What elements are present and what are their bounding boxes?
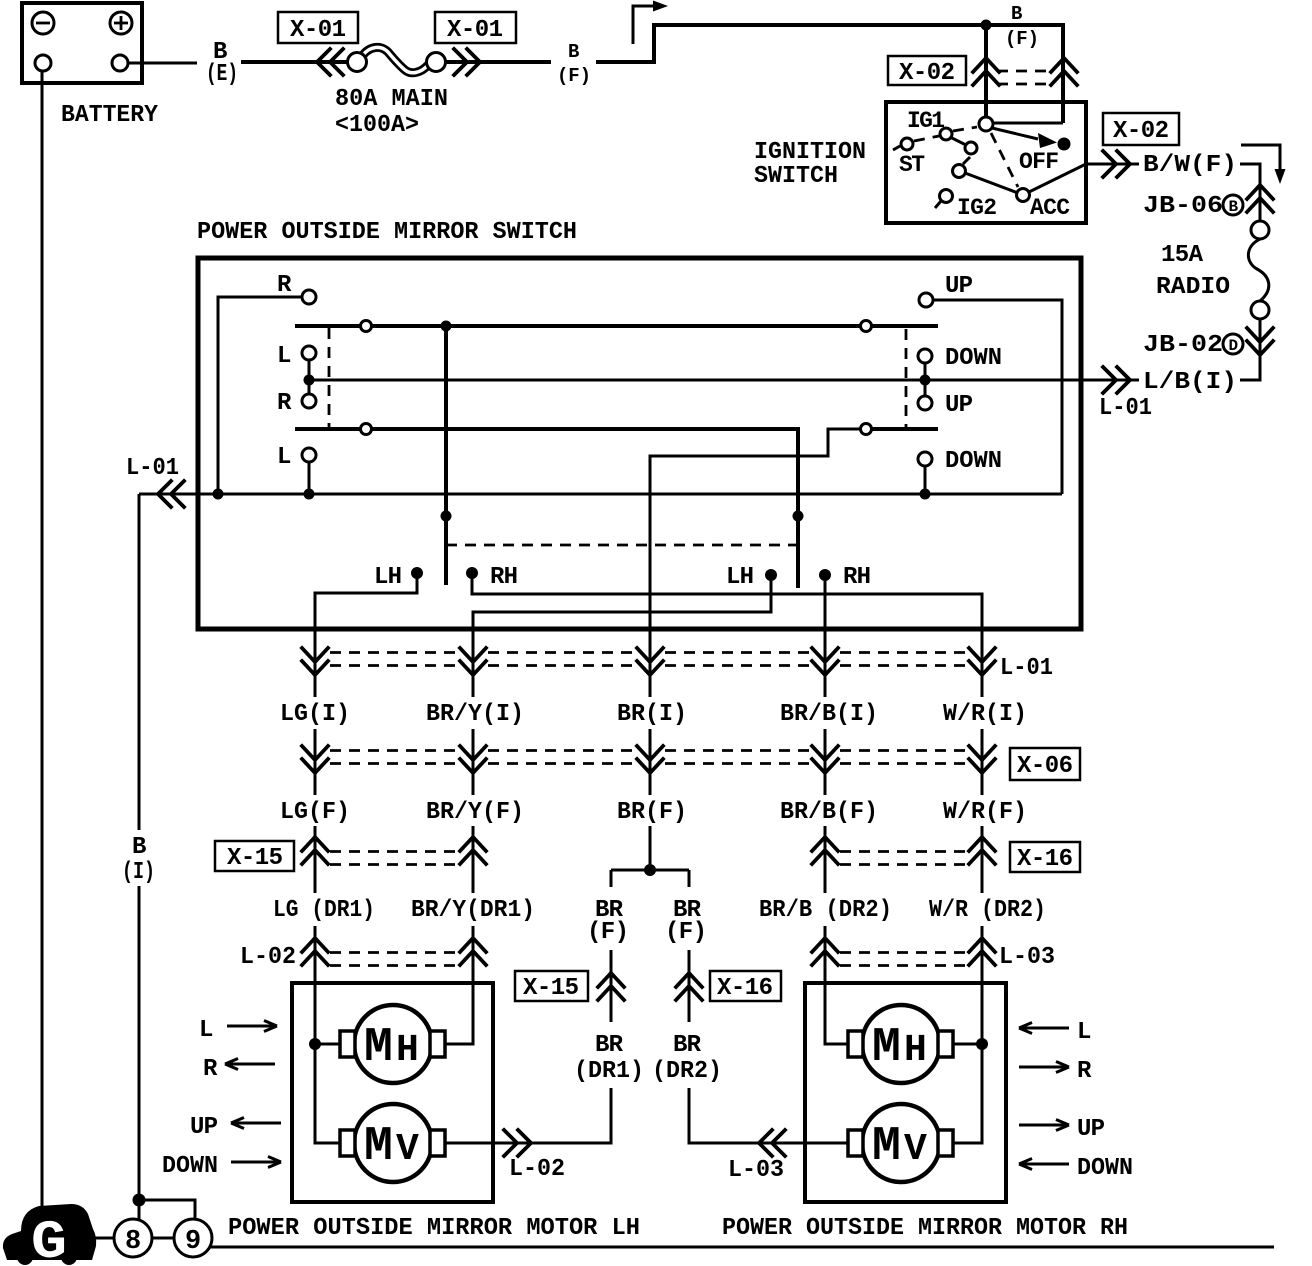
svg-text:L-02: L-02 xyxy=(509,1156,565,1183)
svg-text:POWER OUTSIDE MIRROR MOTOR LH: POWER OUTSIDE MIRROR MOTOR LH xyxy=(228,1215,640,1242)
arrow L in xyxy=(227,1021,277,1032)
wire BR(F) branches down xyxy=(611,950,689,1022)
terminal UP2 xyxy=(918,396,932,410)
svg-text:BR/B(I): BR/B(I) xyxy=(780,701,878,728)
svg-text:W/R (DR2): W/R (DR2) xyxy=(929,897,1046,924)
wire columns between X-06 row and X-15/X-16 row xyxy=(315,826,982,893)
svg-text:B: B xyxy=(1229,198,1239,216)
dashed link common-ACC xyxy=(991,133,1018,187)
svg-text:X-15: X-15 xyxy=(523,975,579,1002)
dashed link IG1-common xyxy=(953,127,977,131)
terminal L1 xyxy=(302,346,316,360)
svg-text:80A MAIN: 80A MAIN xyxy=(335,86,448,113)
dashed gang link left xyxy=(328,328,331,427)
wire R1 to bottom bus xyxy=(218,297,302,494)
svg-text:BR/B (DR2): BR/B (DR2) xyxy=(759,897,892,924)
svg-text:H: H xyxy=(904,1029,927,1072)
wire junction down to Mv left brush xyxy=(315,1044,340,1143)
svg-text:IGNITION: IGNITION xyxy=(754,139,866,166)
wire BR(DR2) to RH Mv xyxy=(689,1088,849,1143)
svg-text:IG1: IG1 xyxy=(907,108,945,134)
svg-text:B: B xyxy=(1011,3,1022,25)
wire L2 to bottom bus xyxy=(308,462,311,494)
svg-text:L: L xyxy=(1077,1019,1091,1046)
arrow R out xyxy=(225,1059,275,1070)
svg-text:X-16: X-16 xyxy=(1017,846,1073,873)
switch bar 1 (horizontal contact) xyxy=(295,324,938,328)
connector X-02 chevrons (up) xyxy=(973,58,999,85)
terminal DOWN1 xyxy=(918,349,932,363)
node bus-L2 xyxy=(304,489,315,500)
terminal B circled xyxy=(1223,195,1243,216)
node B(F) junction xyxy=(981,20,992,31)
fuse 15A RADIO xyxy=(1248,221,1269,319)
node OFF contact xyxy=(1058,138,1071,151)
connector X-02 label box (right) xyxy=(1103,113,1179,145)
wire fusible link to B(F) xyxy=(445,60,551,64)
svg-text:R: R xyxy=(1077,1058,1092,1085)
svg-text:IG2: IG2 xyxy=(957,195,997,221)
ignition common terminal xyxy=(979,117,993,131)
wire DOWN2 to bottom bus xyxy=(924,466,927,494)
contact circle bar2 left xyxy=(361,424,372,435)
wire bottom bus xyxy=(139,493,1062,496)
svg-text:R: R xyxy=(277,390,292,417)
node L/B junction left xyxy=(304,375,315,386)
terminal R2 xyxy=(302,394,316,408)
svg-text:X-02: X-02 xyxy=(899,60,955,87)
svg-text:DOWN: DOWN xyxy=(945,345,1002,372)
svg-text:JB-02: JB-02 xyxy=(1143,332,1223,359)
connector X-01 label box (left) xyxy=(278,12,358,44)
svg-text:X-15: X-15 xyxy=(227,845,283,872)
svg-text:RH: RH xyxy=(490,564,518,591)
svg-text:L/B(I): L/B(I) xyxy=(1143,369,1237,396)
svg-text:DOWN: DOWN xyxy=(1077,1155,1133,1182)
wire columns between L-01 row and X-06 row xyxy=(315,729,982,795)
wire junction down to ignition switch xyxy=(984,25,988,117)
wire W/R(DR2) into RH motor xyxy=(981,985,984,1044)
svg-text:LG (DR1): LG (DR1) xyxy=(273,897,375,924)
off-page arrow (top) xyxy=(633,6,656,44)
svg-text:BR(F): BR(F) xyxy=(617,799,687,826)
terminal UP1 xyxy=(919,293,933,307)
ignition rotor arrow to OFF xyxy=(992,128,1038,139)
svg-text:UP: UP xyxy=(945,273,973,300)
svg-text:L-01: L-01 xyxy=(126,455,179,482)
connector L-03 chevrons << on wire xyxy=(759,1130,785,1156)
switch pole 2 xyxy=(796,429,800,588)
svg-text:L-03: L-03 xyxy=(728,1157,784,1184)
connector X-15 label box xyxy=(215,841,294,872)
connector L-02 chevrons (up) xyxy=(302,938,486,965)
connector X-16 label box (lower) xyxy=(710,971,781,1002)
wire BR(DR1) to LH Mv xyxy=(446,1088,611,1143)
power outside mirror motor RH box xyxy=(805,983,1006,1202)
node IG2 contact xyxy=(940,190,953,203)
terminal 8 xyxy=(114,1219,152,1257)
svg-text:X-02: X-02 xyxy=(1113,118,1169,145)
svg-text:(I): (I) xyxy=(122,859,155,886)
svg-text:8: 8 xyxy=(125,1227,141,1257)
wire LH2 to BR/Y column xyxy=(473,580,771,697)
wire L/B(I) horizontal xyxy=(309,379,1139,382)
svg-text:BR/Y(I): BR/Y(I) xyxy=(426,701,524,728)
fusible link 80A MAIN xyxy=(348,47,446,72)
svg-text:B: B xyxy=(132,834,146,861)
svg-text:L: L xyxy=(277,444,291,471)
node L/B junction right xyxy=(920,375,931,386)
node RH motor junction xyxy=(976,1038,988,1050)
node IG2 arm contact xyxy=(953,165,966,178)
svg-text:BR(I): BR(I) xyxy=(617,701,687,728)
connector X-01 chevrons >> xyxy=(454,49,480,75)
connector X-16 chevrons (up) xyxy=(812,837,995,864)
arrow L in (RH) xyxy=(1019,1023,1069,1034)
dashed link L-02 row xyxy=(330,953,458,966)
wire B(E) to fusible link xyxy=(241,60,348,64)
dashed link X-15 row xyxy=(330,852,458,865)
connector JB-06 chevrons (up) xyxy=(1247,185,1273,212)
motor LH Mv xyxy=(340,1104,445,1182)
svg-text:(F): (F) xyxy=(557,65,591,87)
ground G (body ground car symbol) xyxy=(3,1204,96,1266)
wire ground to terminal 8 xyxy=(95,1237,114,1240)
connector chevrons << on L-01 wire xyxy=(158,481,184,507)
svg-text:X-01: X-01 xyxy=(290,17,346,44)
node RH1 xyxy=(466,567,478,579)
dashed link X-06 row xyxy=(330,751,967,764)
node ST contact xyxy=(901,138,913,150)
svg-text:BR: BR xyxy=(673,1032,702,1059)
link IG1 to contact xyxy=(950,137,966,145)
wire LH1 to LG column xyxy=(315,578,417,697)
connector L-02 chevrons >> on wire xyxy=(504,1130,531,1156)
svg-text:W/R(I): W/R(I) xyxy=(943,701,1027,728)
wire RH1 to W/R column xyxy=(472,578,982,697)
svg-text:POWER OUTSIDE MIRROR SWITCH: POWER OUTSIDE MIRROR SWITCH xyxy=(197,219,577,246)
svg-text:LH: LH xyxy=(726,564,754,591)
wire B(F) up and right to junction xyxy=(596,25,1063,123)
terminal D circled xyxy=(1223,334,1243,355)
svg-text:RADIO: RADIO xyxy=(1156,274,1230,301)
ST tick xyxy=(893,146,900,150)
svg-text:UP: UP xyxy=(945,392,973,419)
arrow UP out xyxy=(231,1118,281,1129)
svg-text:RH: RH xyxy=(843,564,871,591)
node RH2 xyxy=(819,569,831,581)
connector X-06 label box xyxy=(1010,748,1080,780)
svg-text:UP: UP xyxy=(1077,1116,1105,1143)
motor RH Mh xyxy=(848,1005,953,1083)
dashed link L-01 row xyxy=(330,653,967,666)
svg-text:(DR2): (DR2) xyxy=(652,1058,722,1085)
svg-text:<100A>: <100A> xyxy=(335,112,419,139)
node B(I) junction bottom xyxy=(133,1194,146,1207)
svg-text:ACC: ACC xyxy=(1030,195,1070,221)
wire DOWN1-UP2 link xyxy=(924,363,927,396)
wire fuse to JB-02 xyxy=(1240,319,1260,380)
connector X-15 label box (lower) xyxy=(515,971,588,1002)
connector X-16 chevron on BR(DR2) (up) xyxy=(676,973,702,1000)
svg-text:L: L xyxy=(277,343,291,370)
connector X-02 dashed link xyxy=(997,71,1053,84)
dashed link ST-IG1 xyxy=(914,136,939,141)
svg-text:L-01: L-01 xyxy=(1099,395,1152,422)
wire B(I) down left side xyxy=(138,494,141,1200)
svg-text:BR/Y(F): BR/Y(F) xyxy=(426,799,524,826)
svg-text:M: M xyxy=(872,1120,901,1174)
node ACC contact xyxy=(1017,189,1030,202)
arrow DOWN in xyxy=(231,1157,281,1168)
svg-text:G: G xyxy=(31,1213,67,1266)
arrow R out (RH) xyxy=(1019,1062,1069,1073)
svg-text:POWER OUTSIDE MIRROR MOTOR RH: POWER OUTSIDE MIRROR MOTOR RH xyxy=(722,1215,1128,1242)
svg-text:(E): (E) xyxy=(206,61,238,88)
svg-text:B/W(F): B/W(F) xyxy=(1143,152,1237,179)
node BR(F) split xyxy=(644,864,656,876)
connector X-16 label box xyxy=(1010,842,1080,873)
svg-text:DOWN: DOWN xyxy=(945,448,1002,475)
svg-text:R: R xyxy=(203,1056,218,1083)
wire junction to Mh right brush xyxy=(953,1043,982,1046)
svg-text:M: M xyxy=(364,1021,393,1075)
node contact below IG1 xyxy=(965,142,977,154)
terminal R1 xyxy=(302,290,316,304)
ignition switch U1 box xyxy=(886,102,1086,223)
switch bar 2 (horizontal contact) xyxy=(295,427,800,431)
motor LH Mh xyxy=(340,1005,445,1083)
dashed link X-16 row xyxy=(840,852,967,865)
IG2 tick xyxy=(935,201,941,208)
wire BR(F) T-split xyxy=(611,870,689,887)
connector X-01 label box (right) xyxy=(435,12,516,44)
svg-text:JB-06: JB-06 xyxy=(1143,193,1223,220)
wire UP1 right and down to bottom bus xyxy=(933,300,1062,494)
wire RH2 to BR/B column xyxy=(824,580,827,697)
svg-text:SWITCH: SWITCH xyxy=(754,163,838,190)
wire feed into ignition switch xyxy=(991,122,1063,125)
arrow UP out (RH) xyxy=(1019,1120,1069,1131)
svg-text:(DR1): (DR1) xyxy=(574,1058,644,1085)
svg-text:X-16: X-16 xyxy=(717,975,773,1002)
wire BR(F) to split junction xyxy=(649,826,652,870)
node LH1 xyxy=(411,567,423,579)
svg-text:ST: ST xyxy=(899,152,925,178)
svg-text:DOWN: DOWN xyxy=(162,1153,218,1180)
wire junction to ground circles xyxy=(139,1200,195,1221)
svg-text:B: B xyxy=(568,41,579,63)
connector X-15 chevron on BR(DR1) (up) xyxy=(598,973,624,1000)
connector X-01 chevrons << xyxy=(317,49,343,75)
wire battery positive to B(E) xyxy=(128,62,197,65)
svg-text:15A: 15A xyxy=(1161,242,1204,269)
svg-text:(F): (F) xyxy=(665,919,707,946)
contact circle bar2 right xyxy=(861,424,872,435)
svg-text:M: M xyxy=(872,1021,901,1075)
svg-text:M: M xyxy=(364,1120,393,1174)
dashed gang link right xyxy=(905,329,908,427)
connector X-06 chevrons row (down) xyxy=(302,746,995,773)
wire junction to Mh left brush xyxy=(315,1043,340,1046)
wire ground bus bottom xyxy=(210,1246,1274,1249)
node pole1 pivot xyxy=(441,511,452,522)
wire BR/Y(DR1) to Mh right brush xyxy=(445,985,473,1044)
connector L-03 chevrons (up) xyxy=(812,938,995,965)
svg-text:L-03: L-03 xyxy=(999,944,1055,971)
node bar1-pole1 xyxy=(441,321,452,332)
IG2 arm tick xyxy=(963,157,970,164)
svg-text:V: V xyxy=(396,1128,419,1171)
connector chevrons >> on L/B wire xyxy=(1103,367,1130,393)
wire columns into motor boxes xyxy=(315,926,982,985)
connector JB-02 chevrons (down) xyxy=(1247,328,1273,355)
svg-text:(F): (F) xyxy=(587,919,629,946)
svg-text:OFF: OFF xyxy=(1019,149,1059,175)
wire terminal 8 to 9 xyxy=(152,1237,174,1240)
svg-text:BATTERY: BATTERY xyxy=(61,102,159,129)
arrow DOWN in (RH) xyxy=(1019,1159,1069,1170)
svg-text:BR/B(F): BR/B(F) xyxy=(780,799,878,826)
node pole2 pivot xyxy=(793,511,804,522)
wire bar2 fixed contact right xyxy=(872,427,938,431)
svg-text:LG(F): LG(F) xyxy=(280,799,350,826)
wire LG(DR1) into LH motor xyxy=(314,985,317,1044)
svg-text:(F): (F) xyxy=(1005,28,1039,50)
wire junction down to Mv right brush xyxy=(953,1044,982,1143)
node IG1 contact xyxy=(940,128,952,140)
terminal 9 xyxy=(174,1219,212,1257)
terminal L2 xyxy=(302,448,316,462)
wire B/W(F) to junction block xyxy=(1240,164,1260,221)
svg-text:9: 9 xyxy=(185,1227,201,1257)
svg-text:LG(I): LG(I) xyxy=(280,701,350,728)
wire battery negative to ground xyxy=(41,71,44,1206)
svg-text:BR/Y(DR1): BR/Y(DR1) xyxy=(411,897,535,924)
node LH2 xyxy=(765,569,777,581)
wire bar2 contact to BR column xyxy=(650,429,860,697)
dashed pole gang link xyxy=(446,544,798,547)
contact circle bar1 right xyxy=(861,321,872,332)
svg-text:W/R(F): W/R(F) xyxy=(943,799,1027,826)
connector L-01 chevrons row (down) xyxy=(302,648,995,675)
wire ACC to box edge xyxy=(1029,164,1086,192)
svg-text:L-01: L-01 xyxy=(1000,655,1053,682)
link arm to ACC xyxy=(965,173,1018,193)
motor RH Mv xyxy=(848,1104,953,1182)
off-page arrow (down) xyxy=(1241,145,1280,172)
power outside mirror motor LH box xyxy=(292,983,493,1202)
svg-text:LH: LH xyxy=(374,564,402,591)
wire BR/B(DR2) to Mh left brush xyxy=(825,985,848,1044)
contact circle bar1 left xyxy=(361,321,372,332)
svg-text:H: H xyxy=(396,1029,419,1072)
wire L1-R2 link xyxy=(308,360,311,394)
power outside mirror switch S1 box xyxy=(198,258,1081,629)
dashed link L-03 row xyxy=(840,953,967,966)
wire ACC out to B/W(F) xyxy=(1086,163,1139,166)
connector X-02 chevrons >> xyxy=(1103,151,1130,177)
svg-text:X-01: X-01 xyxy=(447,17,503,44)
svg-text:L-02: L-02 xyxy=(240,944,296,971)
svg-text:R: R xyxy=(277,272,292,299)
connector X-02 label box xyxy=(888,56,966,87)
node bus-R1 xyxy=(213,489,224,500)
node bus-DOWN2 xyxy=(920,489,931,500)
svg-text:X-06: X-06 xyxy=(1017,753,1073,780)
svg-text:L: L xyxy=(199,1017,213,1044)
node LH motor junction xyxy=(309,1038,321,1050)
battery B1 xyxy=(22,3,142,83)
svg-text:UP: UP xyxy=(190,1114,218,1141)
svg-text:D: D xyxy=(1229,337,1239,355)
connector X-15 chevrons (up) xyxy=(302,837,486,864)
svg-text:V: V xyxy=(904,1128,927,1171)
wire Mv right brush to L-02 xyxy=(445,1142,611,1145)
svg-text:BR: BR xyxy=(595,1032,624,1059)
switch pole 1 xyxy=(444,326,448,585)
terminal DOWN2 xyxy=(918,452,932,466)
